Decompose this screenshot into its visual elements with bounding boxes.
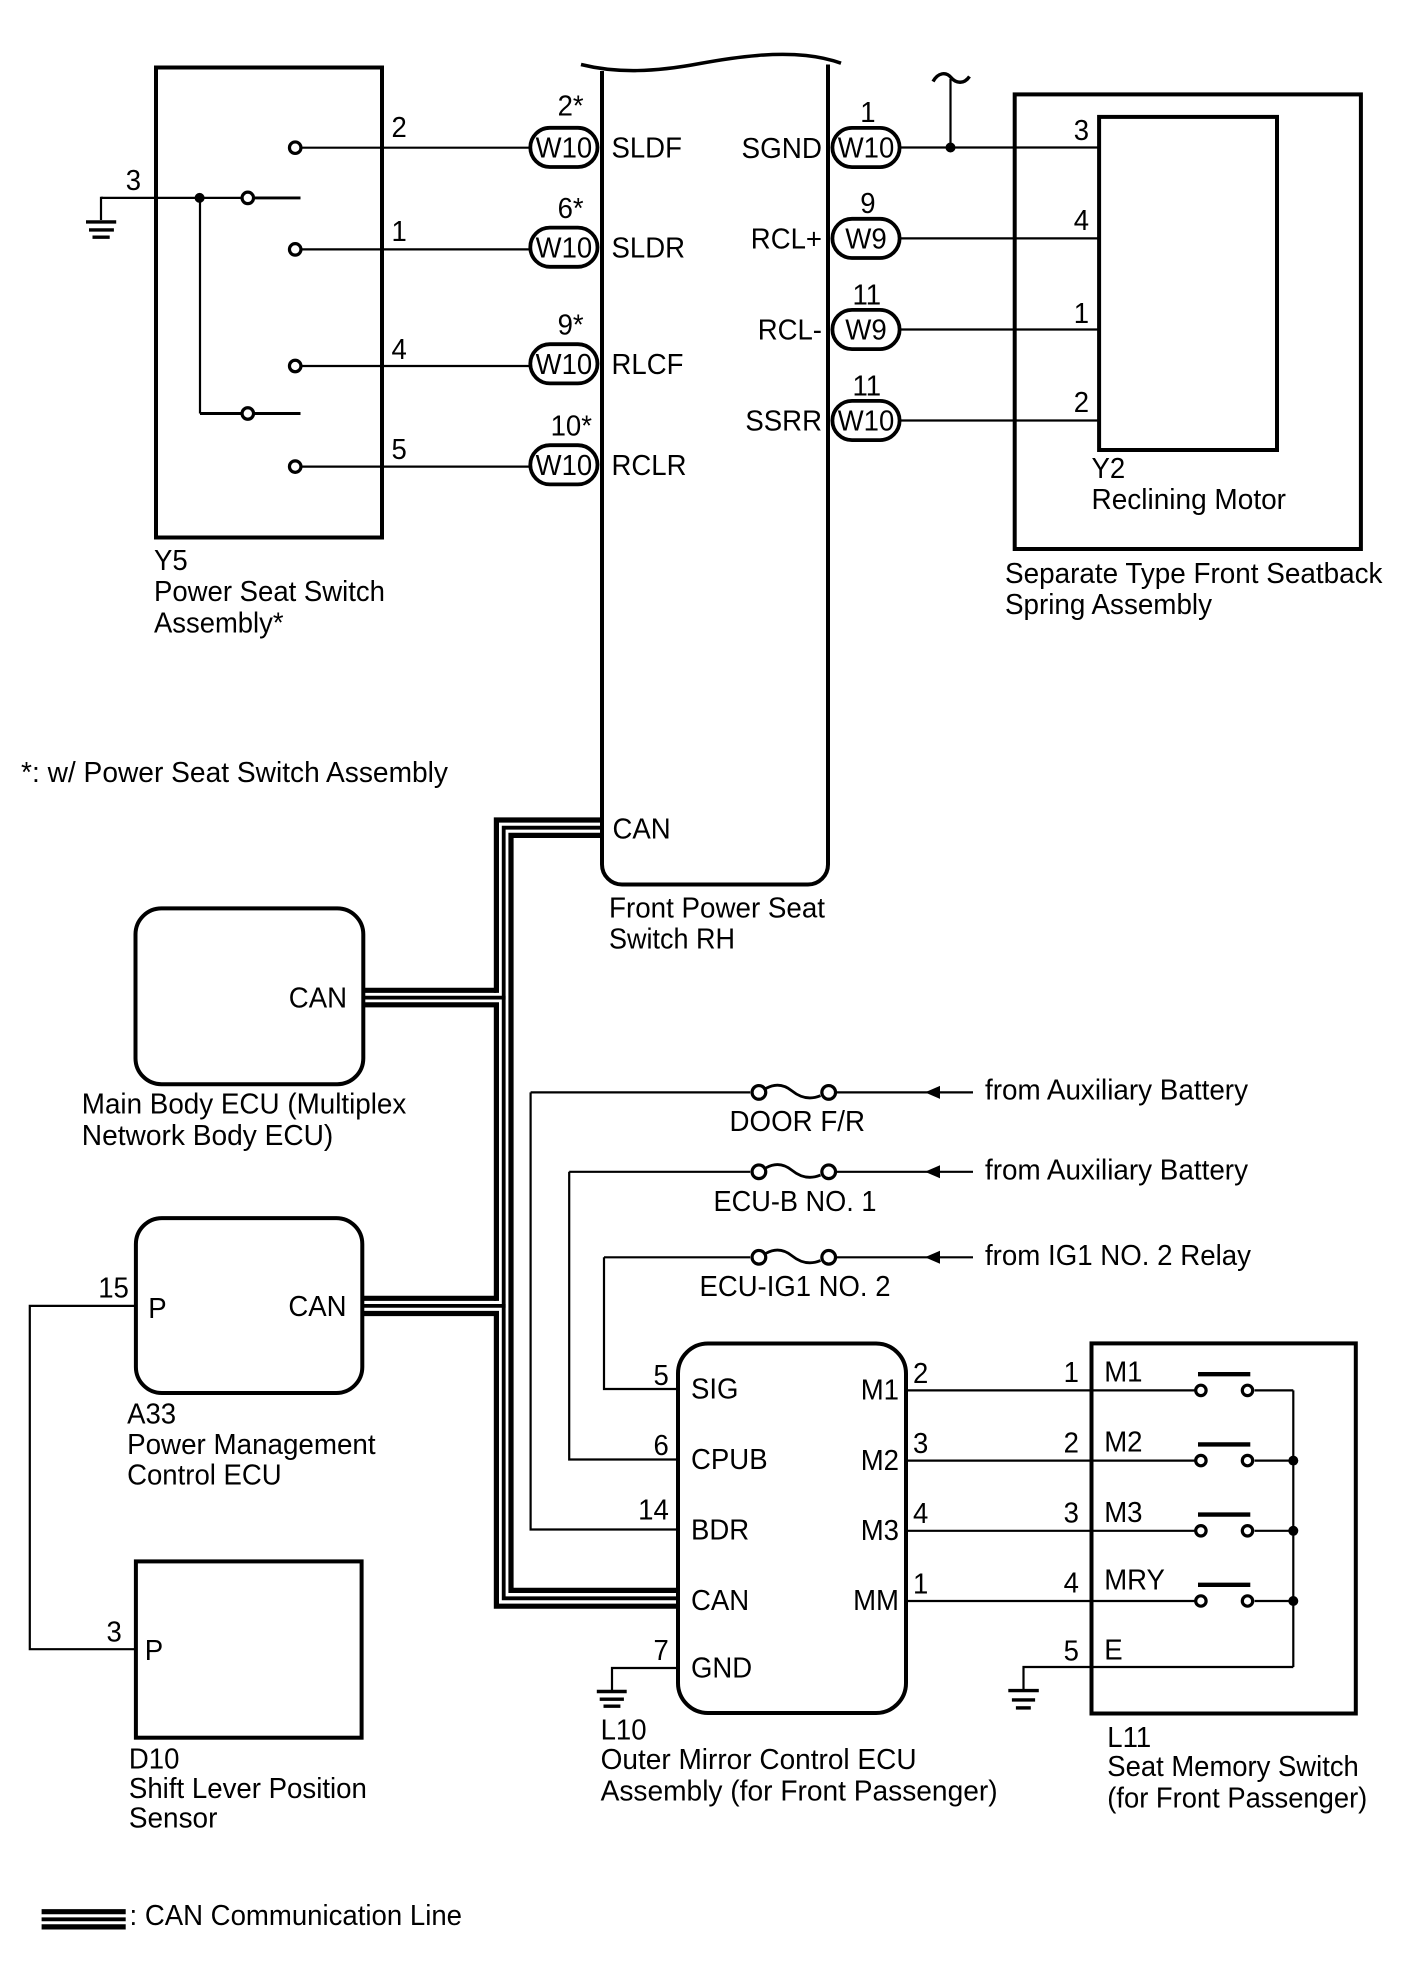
connector Y5 box: [156, 68, 382, 538]
motor Y2 box: [1099, 117, 1277, 450]
svg-text:6: 6: [654, 1430, 669, 1462]
svg-text:from Auxiliary Battery: from Auxiliary Battery: [985, 1075, 1248, 1107]
CAN branch Main Body ECU (middle line): [362, 996, 506, 1000]
svg-text:4: 4: [1074, 205, 1089, 237]
svg-text:ECU-B NO. 1: ECU-B NO. 1: [714, 1186, 877, 1218]
Y5 pin 5 contact circle: [289, 461, 301, 473]
break wave (top of Front Power Seat Switch RH): [581, 54, 841, 70]
wire fuse row left: [531, 1091, 751, 1093]
svg-text:11: 11: [853, 371, 882, 403]
connector W10 (2*): [530, 128, 597, 167]
break symbol (noise filter ground): [933, 74, 970, 148]
wire fuse row left: [569, 1171, 750, 1173]
wire L10 M3 to L11 switch: [906, 1530, 1195, 1532]
svg-text:11: 11: [853, 280, 882, 312]
CAN bus inner line (continuous): [511, 835, 679, 1590]
svg-text:Power Seat Switch: Power Seat Switch: [154, 576, 385, 608]
switch contact 2 (Y5 bottom): [200, 408, 301, 420]
svg-text:3: 3: [1074, 115, 1089, 147]
svg-text:W10: W10: [838, 133, 895, 165]
svg-text:SLDR: SLDR: [612, 232, 686, 264]
svg-text:Switch RH: Switch RH: [609, 923, 735, 955]
svg-text:RCL+: RCL+: [751, 223, 822, 255]
ECU Main Body box: [136, 908, 364, 1084]
junction node MRY: [1288, 1596, 1298, 1606]
junction node SGND: [946, 143, 956, 153]
svg-text:SSRR: SSRR: [745, 406, 822, 438]
svg-text:Front Power Seat: Front Power Seat: [609, 892, 825, 924]
connector W10 (9*): [530, 344, 597, 383]
CAN bus outer line segment (bottom, to L10): [362, 1314, 679, 1607]
svg-text:RCLR: RCLR: [612, 450, 687, 482]
svg-text:from Auxiliary Battery: from Auxiliary Battery: [985, 1154, 1248, 1186]
arrow (feed direction): [925, 1251, 940, 1264]
svg-text:3: 3: [126, 165, 141, 197]
sensor D10 box: [136, 1561, 362, 1737]
arrow (feed direction): [925, 1165, 940, 1178]
svg-text:4: 4: [1064, 1568, 1079, 1600]
switch contact 1 (Y5 top): [242, 192, 300, 204]
svg-text:W10: W10: [536, 232, 593, 264]
svg-text:2: 2: [913, 1358, 928, 1390]
svg-text:W9: W9: [845, 315, 887, 347]
ECU L10 box: [678, 1344, 906, 1714]
switch M2: [1196, 1444, 1294, 1465]
svg-text:DOOR F/R: DOOR F/R: [730, 1106, 866, 1138]
svg-text:: CAN Communication Line: : CAN Communication Line: [130, 1900, 463, 1932]
svg-text:CAN: CAN: [691, 1585, 749, 1617]
CAN bus middle line (continuous): [504, 828, 679, 1599]
svg-text:SGND: SGND: [742, 133, 823, 165]
CAN branch Main Body ECU (top line): [362, 990, 496, 992]
svg-text:Reclining Motor: Reclining Motor: [1092, 484, 1287, 516]
arrow (feed direction): [925, 1086, 940, 1099]
svg-text:from IG1 NO. 2 Relay: from IG1 NO. 2 Relay: [985, 1240, 1251, 1272]
switch L11 box: [1092, 1343, 1356, 1713]
svg-text:9*: 9*: [558, 310, 584, 342]
Y5 pin 2 contact circle: [289, 142, 301, 154]
svg-text:RCL-: RCL-: [758, 315, 822, 347]
svg-text:CAN: CAN: [613, 814, 671, 846]
Y5 pin 4 contact circle: [289, 360, 301, 372]
svg-text:3: 3: [1064, 1498, 1079, 1530]
junction node M3: [1288, 1526, 1298, 1536]
svg-text:5: 5: [1064, 1636, 1079, 1668]
wire DOOR F/R to BDR: [531, 1092, 679, 1529]
svg-text:6*: 6*: [558, 193, 584, 225]
svg-text:Y2: Y2: [1092, 453, 1126, 485]
svg-text:BDR: BDR: [691, 1515, 749, 1547]
svg-text:9: 9: [860, 188, 875, 220]
junction node (Y5): [195, 193, 205, 203]
svg-text:M1: M1: [861, 1375, 899, 1407]
Separate Type Front Seatback Spring Assembly box: [1015, 94, 1361, 549]
svg-text:Shift Lever Position: Shift Lever Position: [129, 1773, 367, 1805]
wire switch common vertical: [1292, 1390, 1294, 1667]
wire ECU-IG1 NO.2 to SIG: [604, 1257, 679, 1389]
svg-text:W10: W10: [536, 133, 593, 165]
svg-text:M1: M1: [1104, 1356, 1142, 1388]
svg-text:M2: M2: [861, 1445, 899, 1477]
wire GND (L10 pin 7): [612, 1668, 679, 1690]
svg-text:SLDF: SLDF: [612, 133, 682, 165]
wire E to ground: [1024, 1667, 1294, 1689]
svg-text:7: 7: [654, 1635, 669, 1667]
svg-text:MM: MM: [853, 1585, 899, 1617]
wire fuse to arrow: [837, 1256, 973, 1258]
CAN bus outer line segment (top, to Front Power Seat Switch RH): [496, 820, 601, 993]
svg-text:Power Management: Power Management: [127, 1429, 376, 1461]
fuse DOOR F/R: [752, 1085, 836, 1099]
wire RCL- to Y2 pin 1: [900, 328, 1100, 330]
svg-text:P: P: [148, 1293, 166, 1325]
ground (Y5 pin 3): [86, 198, 116, 237]
svg-text:Spring Assembly: Spring Assembly: [1005, 589, 1212, 621]
svg-text:CAN: CAN: [288, 1291, 346, 1323]
svg-text:ECU-IG1 NO. 2: ECU-IG1 NO. 2: [700, 1271, 891, 1303]
svg-text:Network Body ECU): Network Body ECU): [82, 1120, 333, 1152]
svg-text:1: 1: [392, 216, 407, 248]
ECU A33 box: [136, 1218, 362, 1393]
svg-text:Outer Mirror Control ECU: Outer Mirror Control ECU: [601, 1744, 917, 1776]
wire RCL+ to Y2 pin 4: [900, 237, 1100, 239]
wire A33 P down to D10 P: [30, 1306, 136, 1649]
wire Y5 pin 5 to connector: [302, 466, 531, 468]
wire Y5 pin 2 to connector: [302, 147, 531, 149]
svg-text:E: E: [1104, 1635, 1122, 1667]
wire SSRR to Y2 pin 2: [900, 419, 1100, 421]
svg-text:10*: 10*: [551, 411, 592, 443]
ground (L11 E): [1008, 1691, 1039, 1708]
junction node M2: [1288, 1456, 1298, 1466]
svg-text:1: 1: [1064, 1357, 1079, 1389]
svg-text:3: 3: [913, 1428, 928, 1460]
svg-text:Y5: Y5: [154, 545, 188, 577]
wire Y5 pin 1 to connector: [302, 248, 531, 250]
wire fuse row left: [604, 1256, 750, 1258]
svg-text:W10: W10: [838, 406, 895, 438]
svg-text:D10: D10: [129, 1743, 180, 1775]
wire fuse to arrow: [837, 1091, 973, 1093]
svg-text:1: 1: [913, 1569, 928, 1601]
svg-text:A33: A33: [127, 1399, 176, 1431]
svg-text:4: 4: [392, 334, 407, 366]
svg-text:Assembly*: Assembly*: [154, 608, 284, 640]
svg-text:5: 5: [392, 434, 407, 466]
switch M3: [1196, 1515, 1294, 1536]
wire fuse to arrow: [837, 1171, 973, 1173]
svg-text:2*: 2*: [558, 91, 584, 123]
svg-text:14: 14: [638, 1494, 669, 1526]
wire ECU-B NO.1 to CPUB: [569, 1172, 679, 1460]
svg-text:Main Body ECU (Multiplex: Main Body ECU (Multiplex: [82, 1088, 407, 1120]
wire L10 M2 to L11 switch: [906, 1459, 1195, 1461]
switch M1: [1196, 1374, 1294, 1395]
ground (L10): [597, 1692, 627, 1707]
svg-text:2: 2: [1064, 1427, 1079, 1459]
svg-text:3: 3: [107, 1617, 122, 1649]
wire L10 M1 to L11 switch: [906, 1389, 1195, 1391]
ECU Front Power Seat Switch RH box: [602, 65, 828, 885]
svg-text:SIG: SIG: [691, 1373, 739, 1405]
switch MRY: [1196, 1585, 1294, 1606]
svg-text:GND: GND: [691, 1653, 752, 1685]
wire L10 MRY to L11 switch: [906, 1600, 1195, 1602]
legend CAN line sample: [42, 1912, 126, 1927]
fuse ECU-B NO. 1: [752, 1165, 836, 1179]
svg-text:Separate Type Front Seatback: Separate Type Front Seatback: [1005, 558, 1383, 590]
svg-text:(for Front Passenger): (for Front Passenger): [1107, 1782, 1367, 1814]
connector W10 (pin 1, right): [832, 128, 899, 167]
svg-text:Seat Memory Switch: Seat Memory Switch: [1107, 1751, 1359, 1783]
fuse ECU-IG1 NO. 2: [752, 1250, 836, 1264]
svg-text:1: 1: [1074, 298, 1089, 330]
svg-text:Sensor: Sensor: [129, 1802, 218, 1834]
wire Y5 pin 3: [101, 197, 242, 199]
Y5 pin 1 contact circle: [289, 244, 301, 256]
svg-text:W10: W10: [536, 349, 593, 381]
connector W9 (pin 9, right): [832, 219, 899, 258]
svg-text:P: P: [145, 1635, 163, 1667]
svg-text:4: 4: [913, 1498, 928, 1530]
connector W10 (10*): [530, 445, 597, 484]
svg-text:5: 5: [654, 1360, 669, 1392]
connector W9 (pin 11, right): [832, 310, 899, 349]
svg-text:W10: W10: [536, 450, 593, 482]
CAN branch A33 (top line): [362, 1298, 496, 1300]
svg-text:Assembly (for Front Passenger): Assembly (for Front Passenger): [601, 1775, 998, 1807]
svg-text:2: 2: [392, 112, 407, 144]
wire junction down: [199, 198, 201, 414]
CAN branch Main Body ECU (bottom line): [362, 1005, 496, 1301]
svg-text:M3: M3: [861, 1515, 899, 1547]
svg-text:M3: M3: [1104, 1497, 1142, 1529]
connector W10 (6*): [530, 228, 597, 267]
svg-text:RLCF: RLCF: [612, 349, 684, 381]
svg-text:2: 2: [1074, 387, 1089, 419]
svg-text:CPUB: CPUB: [691, 1444, 768, 1476]
svg-text:M2: M2: [1104, 1427, 1142, 1459]
svg-text:Control ECU: Control ECU: [127, 1460, 282, 1492]
svg-text:15: 15: [98, 1273, 129, 1305]
connector W10 (pin 11, right): [832, 401, 899, 440]
svg-text:L10: L10: [601, 1715, 647, 1747]
svg-text:W9: W9: [845, 224, 887, 256]
wire SGND to Y2 pin 3: [900, 146, 1100, 148]
svg-text:*: w/ Power Seat Switch Assemb: *: w/ Power Seat Switch Assembly: [21, 757, 448, 789]
svg-text:1: 1: [860, 97, 875, 129]
svg-text:CAN: CAN: [289, 983, 347, 1015]
svg-text:MRY: MRY: [1104, 1565, 1165, 1597]
wire Y5 pin 4 to connector: [302, 365, 531, 367]
CAN branch A33 (middle line): [362, 1304, 506, 1308]
svg-text:L11: L11: [1107, 1722, 1151, 1754]
